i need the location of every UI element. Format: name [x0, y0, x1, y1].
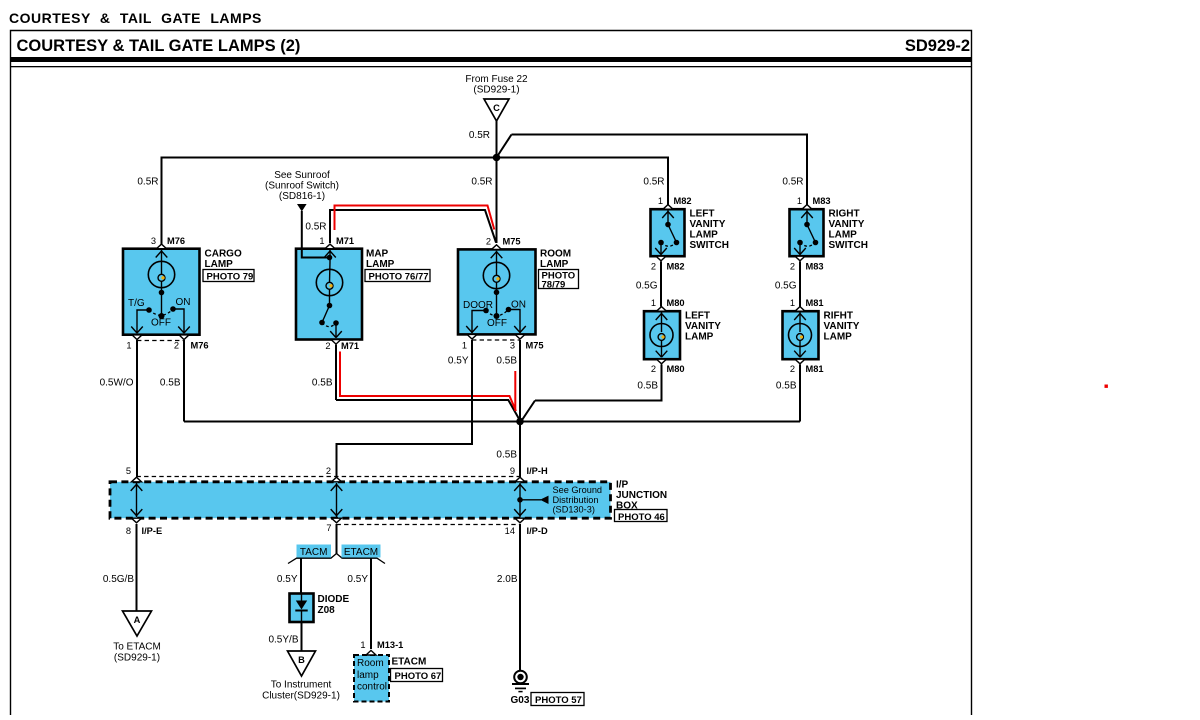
svg-text:LEFT: LEFT: [690, 209, 715, 220]
svg-text:LAMP: LAMP: [829, 230, 858, 241]
svg-text:CARGO: CARGO: [205, 249, 242, 260]
svg-text:PHOTO 67: PHOTO 67: [395, 671, 442, 682]
svg-text:M76: M76: [191, 341, 209, 351]
room lamp M75 box: [458, 249, 536, 334]
wire ETACM branch down (0.5Y): [370, 558, 372, 649]
pin 9 label I/P-H: [510, 466, 548, 476]
svg-text:0.5G: 0.5G: [775, 281, 797, 292]
pin 14 label I/P-D: [505, 526, 548, 536]
svg-text:PHOTO 57: PHOTO 57: [535, 695, 582, 706]
svg-text:0.5R: 0.5R: [305, 222, 326, 233]
component name LEFT VANITY LAMP: [685, 311, 721, 343]
photo ref PHOTO 46: [615, 510, 668, 524]
svg-text:1: 1: [462, 341, 467, 351]
node junction dot top: [493, 154, 501, 162]
svg-text:3: 3: [510, 341, 515, 351]
room lamp switch ON contact: [506, 307, 512, 313]
cargo lamp switch pole dot: [159, 313, 165, 319]
svg-text:5: 5: [126, 466, 131, 476]
component name MAP LAMP: [366, 249, 395, 271]
annotation See Ground Distribution (SD130-3): [553, 485, 603, 515]
pin 1 chevron M13-1: [366, 650, 376, 655]
cargo lamp wire contact ON to pin2: [173, 309, 190, 333]
room lamp switch position labels: [463, 300, 526, 330]
pin 1 chevron M75: [467, 334, 477, 339]
red highlight path upper (map lamp feed): [335, 206, 495, 231]
wire slant up from node to upper rail: [497, 135, 512, 158]
connector triangle A: [123, 611, 152, 636]
pin 7 chevron: [332, 518, 342, 523]
svg-text:0.5Y: 0.5Y: [347, 574, 368, 585]
diagram frame border: [11, 31, 972, 716]
wire from C to node: [496, 121, 498, 158]
I/P internal through-wire pin9-pin14: [514, 483, 526, 517]
map lamp M71 box: [296, 249, 362, 340]
wire upper rail to M83 (0.5R): [512, 135, 808, 206]
svg-text:0.5B: 0.5B: [160, 378, 181, 389]
M83 switch right contact: [813, 240, 819, 246]
pin 2 chevron M71: [331, 340, 341, 345]
svg-text:To Instrument: To Instrument: [271, 680, 332, 691]
svg-text:VANITY: VANITY: [829, 219, 865, 230]
pins 1 3 labels of connector M75: [462, 341, 544, 351]
pin 1 chevron M82: [663, 205, 673, 210]
svg-text:PHOTO 79: PHOTO 79: [207, 272, 254, 283]
svg-text:Cluster(SD929-1): Cluster(SD929-1): [262, 691, 340, 702]
fork shelf left: [288, 558, 331, 563]
svg-text:See Ground: See Ground: [553, 485, 603, 495]
wire M76 pin1 down to I/P pin5 (0.5W/O): [136, 340, 138, 477]
wire sunroof feed down to map lamp: [301, 211, 303, 250]
svg-text:Room: Room: [357, 658, 384, 669]
wire slant node to right rail: [521, 401, 535, 422]
svg-text:0.5W/O: 0.5W/O: [100, 378, 134, 389]
map lamp switch dashed arc: [322, 323, 336, 327]
wire diode down (0.5Y/B): [301, 622, 303, 651]
svg-text:DOOR: DOOR: [463, 300, 493, 311]
svg-text:0.5B: 0.5B: [637, 381, 658, 392]
pin 14 chevron: [515, 518, 525, 523]
cargo lamp internal pin3 arrow: [156, 250, 168, 262]
svg-text:C: C: [493, 103, 500, 113]
cargo lamp switch position labels: [128, 297, 191, 329]
svg-text:M71: M71: [336, 236, 354, 246]
room lamp internal pin2 arrow: [491, 251, 503, 262]
right vanity lamp switch M83 box: [790, 209, 824, 256]
svg-text:7: 7: [326, 523, 331, 533]
wire M71 pin1 to M75 pin2 (0.5R): [330, 210, 496, 243]
wire M83 to M81 (0.5G): [799, 261, 801, 306]
component name CARGO LAMP: [205, 249, 242, 271]
svg-text:Distribution: Distribution: [553, 495, 599, 505]
svg-text:LEFT: LEFT: [685, 311, 710, 322]
svg-text:A: A: [134, 615, 141, 625]
pin 2 label of connector M75: [486, 237, 521, 247]
svg-text:0.5Y/B: 0.5Y/B: [268, 635, 298, 646]
header thick divider: [10, 57, 972, 62]
wire M76 pin2 down to ground bus (0.5B): [183, 340, 185, 422]
red highlight path lower (map lamp ground): [340, 352, 516, 412]
svg-text:2: 2: [651, 262, 656, 272]
svg-text:0.5R: 0.5R: [137, 177, 158, 188]
pin 1 chevron M83: [802, 205, 812, 210]
wire sunroof feed inside map lamp: [302, 248, 330, 258]
svg-text:0.5G/B: 0.5G/B: [103, 574, 134, 585]
cargo lamp switch ON contact: [170, 306, 176, 312]
svg-text:0.5B: 0.5B: [496, 450, 517, 461]
svg-text:2: 2: [325, 341, 330, 351]
svg-text:B: B: [298, 655, 305, 665]
svg-text:(Sunroof Switch): (Sunroof Switch): [265, 181, 339, 192]
svg-text:I/P-H: I/P-H: [527, 466, 548, 476]
svg-text:From Fuse 22: From Fuse 22: [465, 74, 528, 85]
svg-text:M82: M82: [674, 196, 692, 206]
M80 internal pin1 arrow: [656, 313, 668, 333]
I/P internal ground tap dot: [517, 497, 523, 503]
wire M75 pin1 down-left to I/P pin2 (0.5Y): [337, 340, 473, 477]
svg-text:M13-1: M13-1: [377, 640, 403, 650]
svg-text:control: control: [357, 682, 387, 693]
pin 8 chevron: [132, 518, 142, 523]
room lamp bulb-switch junction dot: [494, 290, 500, 296]
M82 switch dashed arc: [661, 243, 677, 247]
svg-text:VANITY: VANITY: [824, 321, 860, 332]
svg-text:1: 1: [360, 640, 365, 650]
M82 switch lever: [668, 225, 677, 243]
svg-text:T/G: T/G: [128, 298, 145, 309]
svg-text:LAMP: LAMP: [824, 332, 853, 343]
svg-text:M81: M81: [806, 364, 824, 374]
svg-text:(SD929-1): (SD929-1): [473, 85, 519, 96]
svg-text:RIFHT: RIFHT: [824, 311, 853, 322]
wire M75 pin3 down to ground node (0.5B): [519, 340, 521, 422]
ground node junction dot: [516, 418, 524, 426]
pin 1 label of connector M71: [319, 236, 354, 246]
ground bus horizontal wire: [184, 421, 800, 423]
M82 internal pin1 arrow: [662, 211, 674, 225]
svg-text:I/P-E: I/P-E: [142, 526, 163, 536]
room lamp switch dashed arc: [486, 310, 509, 316]
map lamp bulb: [316, 262, 342, 306]
room lamp wire contact DOOR to pin1: [466, 311, 486, 334]
wire I/P pin7 down to TACM/ETACM fork: [336, 524, 338, 554]
M80 bulb: [650, 324, 673, 358]
pin 5 chevron: [132, 477, 142, 482]
pin 1 label of connector M80: [651, 298, 685, 308]
svg-text:0.5R: 0.5R: [469, 130, 490, 141]
stray red mark: [1105, 385, 1108, 388]
svg-text:1: 1: [797, 196, 802, 206]
svg-text:JUNCTION: JUNCTION: [616, 490, 667, 501]
M81 internal pin2 arrow: [794, 351, 806, 358]
left vanity lamp switch M82 box: [651, 209, 685, 256]
svg-text:COURTESY & TAIL GATE LAMPS (2): COURTESY & TAIL GATE LAMPS (2): [17, 37, 301, 55]
fork shelf right: [343, 558, 386, 563]
cargo lamp bulb-switch junction dot: [159, 290, 165, 296]
right vanity lamp M81 box: [783, 311, 819, 359]
M81 internal pin1 arrow: [794, 313, 806, 333]
map lamp switch left contact: [319, 320, 325, 326]
wire M82 to M80 (0.5G): [660, 261, 662, 306]
svg-text:ON: ON: [176, 297, 191, 308]
I/P internal through-wire pin2-pin7: [331, 483, 343, 517]
M82 switch right contact: [674, 240, 680, 246]
pin 3 label of connector M76: [151, 236, 185, 246]
pin 9 chevron: [515, 477, 525, 482]
svg-text:M83: M83: [806, 262, 824, 272]
connector triangle C: [484, 99, 509, 121]
M83 switch left contact: [797, 240, 803, 246]
svg-text:0.5B: 0.5B: [496, 356, 517, 367]
map lamp switch pole dot: [327, 303, 333, 309]
wire M81 pin2 down (0.5B): [799, 364, 801, 421]
svg-text:I/P-D: I/P-D: [527, 526, 548, 536]
svg-text:1: 1: [126, 341, 131, 351]
svg-text:TACM: TACM: [300, 547, 328, 558]
svg-text:Z08: Z08: [318, 605, 336, 616]
pin 1 label of connector M81: [790, 298, 824, 308]
svg-text:0.5B: 0.5B: [776, 381, 797, 392]
svg-text:PHOTO 76/77: PHOTO 76/77: [369, 272, 429, 283]
svg-text:(SD130-3): (SD130-3): [553, 505, 595, 515]
pin 2 label of connector M81: [790, 364, 824, 374]
pin 8 label I/P-E: [126, 526, 162, 536]
cargo lamp switch T/G contact: [146, 307, 152, 313]
map lamp switch right contact: [333, 320, 339, 326]
svg-text:0.5Y: 0.5Y: [448, 356, 469, 367]
svg-text:DIODE: DIODE: [318, 594, 350, 605]
pin 2 chevron M83: [795, 256, 805, 261]
pins 1 2 labels of connector M76: [126, 341, 208, 351]
connector I/P-H top dashed link: [137, 476, 521, 478]
connector M75 bottom dashed link: [472, 339, 520, 341]
svg-text:2.0B: 2.0B: [497, 574, 518, 585]
room lamp switch DOOR contact: [483, 308, 489, 314]
svg-text:OFF: OFF: [151, 318, 171, 329]
svg-text:To ETACM: To ETACM: [113, 642, 161, 653]
svg-text:M82: M82: [667, 262, 685, 272]
svg-text:lamp: lamp: [357, 670, 379, 681]
room lamp wire contact ON to pin3: [509, 310, 526, 334]
net tag ETACM: [342, 545, 381, 559]
svg-text:0.5Y: 0.5Y: [277, 574, 298, 585]
pin 1 chevron M71: [325, 244, 335, 249]
svg-text:See Sunroof: See Sunroof: [274, 170, 330, 181]
cargo lamp wire contact T/G to pin1: [131, 310, 149, 333]
svg-text:RIGHT: RIGHT: [829, 209, 860, 220]
wire M80 pin2 down (0.5B): [661, 364, 663, 401]
svg-text:ETACM: ETACM: [392, 657, 427, 668]
svg-text:LAMP: LAMP: [685, 332, 714, 343]
pin 1 chevron M81: [795, 307, 805, 312]
svg-text:(SD816-1): (SD816-1): [279, 191, 325, 202]
room lamp control box (ETACM): [354, 655, 389, 702]
svg-text:VANITY: VANITY: [690, 219, 726, 230]
component name RIFHT VANITY LAMP: [824, 311, 860, 343]
svg-text:I/P: I/P: [616, 480, 629, 491]
header thin divider: [10, 66, 972, 67]
svg-text:1: 1: [790, 298, 795, 308]
M82 wire contact to pin2: [655, 243, 667, 255]
svg-text:SD929-2: SD929-2: [905, 37, 970, 55]
svg-text:8: 8: [126, 526, 131, 536]
svg-text:0.5G: 0.5G: [636, 281, 658, 292]
M82 switch left contact: [658, 240, 664, 246]
I/P junction box: [110, 482, 611, 518]
svg-text:M83: M83: [813, 196, 831, 206]
pin 2 chevron: [332, 477, 342, 482]
svg-text:ROOM: ROOM: [540, 249, 571, 260]
svg-text:LAMP: LAMP: [540, 259, 569, 270]
annotation To Instrument Cluster(SD929-1): [262, 680, 340, 702]
svg-text:0.5R: 0.5R: [471, 177, 492, 188]
wire node down to M75 pin 2 (0.5R): [496, 158, 498, 244]
svg-text:PHOTO 46: PHOTO 46: [618, 512, 665, 523]
wire ground node down to I/P pin9 (0.5B): [519, 422, 521, 478]
svg-text:M76: M76: [167, 236, 185, 246]
connector M76 bottom dashed link: [137, 340, 184, 342]
svg-text:2: 2: [486, 237, 491, 247]
svg-text:SWITCH: SWITCH: [690, 240, 729, 251]
photo ref PHOTO 78/79: [539, 270, 579, 291]
component name RIGHT VANITY LAMP SWITCH: [829, 209, 868, 252]
M83 internal pin1 arrow: [801, 211, 813, 225]
svg-text:LAMP: LAMP: [366, 259, 395, 270]
I/P internal ground tap wire and arrow: [520, 496, 549, 504]
pin 3 chevron M76: [157, 244, 167, 249]
I/P internal through-wire pin5-pin8: [131, 483, 143, 517]
pin 2 label of connector M82: [651, 262, 685, 272]
diode Z08 box: [290, 594, 314, 623]
svg-text:1: 1: [651, 298, 656, 308]
svg-text:0.5R: 0.5R: [643, 177, 664, 188]
pin 3 chevron M75: [515, 334, 525, 339]
photo ref PHOTO 79: [203, 270, 254, 283]
svg-text:COURTESY & TAIL GATE LAMPS: COURTESY & TAIL GATE LAMPS: [9, 10, 262, 26]
pin 1 chevron M80: [657, 307, 667, 312]
cargo lamp bulb: [148, 261, 174, 316]
svg-text:0.5B: 0.5B: [312, 378, 333, 389]
photo ref PHOTO 76/77: [365, 270, 430, 283]
left vanity lamp M80 box: [644, 311, 680, 359]
svg-text:MAP: MAP: [366, 249, 389, 260]
pin 2 chevron M82: [656, 256, 666, 261]
wire I/P pin14 down to ground (2.0B): [519, 524, 521, 671]
wire TACM branch down (0.5Y): [300, 558, 302, 593]
component name LEFT VANITY LAMP SWITCH: [690, 209, 729, 252]
connector triangle B: [288, 651, 316, 676]
svg-text:OFF: OFF: [487, 318, 507, 329]
net tag TACM: [297, 545, 332, 559]
wire I/P pin8 down (0.5G/B): [136, 524, 138, 611]
cargo lamp M76 box: [123, 249, 200, 335]
svg-text:3: 3: [151, 236, 156, 246]
svg-text:SWITCH: SWITCH: [829, 240, 868, 251]
svg-text:2: 2: [790, 364, 795, 374]
M81 bulb: [789, 324, 812, 358]
component name ROOM LAMP: [540, 249, 571, 271]
M82 switch pole dot: [665, 222, 671, 228]
svg-text:M80: M80: [667, 298, 685, 308]
sunroof feed triangle (filled): [297, 204, 307, 212]
svg-text:1: 1: [319, 236, 324, 246]
photo ref PHOTO 67: [391, 669, 443, 683]
svg-text:LAMP: LAMP: [205, 259, 234, 270]
M83 wire contact to pin2: [794, 243, 806, 255]
map lamp switch lever: [322, 306, 330, 323]
svg-text:0.5R: 0.5R: [782, 177, 803, 188]
pin 2 chevron M75: [492, 245, 502, 250]
pin 1 label of connector M82: [658, 196, 692, 206]
wire M71 pin2 down (0.5B): [335, 345, 337, 400]
pins 2 label of connector M71: [325, 341, 359, 351]
M83 switch pole dot: [804, 222, 810, 228]
M83 switch lever: [807, 225, 816, 243]
pin 1 label of connector M83: [797, 196, 831, 206]
wire bus to M76 and M82 (0.5R): [162, 158, 669, 245]
svg-text:M80: M80: [667, 364, 685, 374]
svg-text:1: 1: [658, 196, 663, 206]
svg-text:VANITY: VANITY: [685, 321, 721, 332]
svg-text:2: 2: [174, 341, 179, 351]
svg-text:M81: M81: [806, 298, 824, 308]
svg-text:2: 2: [651, 364, 656, 374]
svg-text:9: 9: [510, 466, 515, 476]
pin 2 label of connector M80: [651, 364, 685, 374]
pin 2 label of connector M83: [790, 262, 824, 272]
junction dot inside map lamp: [327, 255, 333, 261]
right rail wire to M80: [535, 400, 662, 402]
map lamp wire contact to pin2: [330, 323, 342, 338]
svg-text:78/79: 78/79: [542, 280, 566, 291]
svg-text:M71: M71: [341, 341, 359, 351]
annotation Room lamp control: [357, 658, 387, 693]
map lamp internal pin1 arrow: [324, 250, 336, 262]
svg-text:ETACM: ETACM: [344, 547, 378, 558]
component name DIODE Z08: [318, 594, 350, 616]
svg-text:2: 2: [326, 466, 331, 476]
pin 2 chevron M81: [795, 359, 805, 364]
pin 1 label of connector M13-1: [360, 640, 403, 650]
pin 2 chevron M76: [179, 335, 189, 340]
pin 2 chevron M80: [657, 359, 667, 364]
pin 1 chevron M76: [132, 335, 142, 340]
cargo lamp switch dashed arc: [149, 309, 173, 315]
annotation To ETACM (SD929-1): [113, 642, 161, 664]
room lamp bulb: [483, 262, 509, 316]
svg-text:14: 14: [505, 526, 515, 536]
svg-text:(SD929-1): (SD929-1): [114, 653, 160, 664]
room lamp switch pole dot: [494, 313, 500, 319]
svg-text:LAMP: LAMP: [690, 230, 719, 241]
svg-text:G03: G03: [511, 695, 530, 706]
svg-text:M75: M75: [526, 341, 544, 351]
ground G03 symbol: [512, 671, 529, 692]
M80 internal pin2 arrow: [656, 351, 668, 358]
diode symbol: [295, 594, 307, 623]
fork slants: [331, 554, 343, 559]
svg-text:M75: M75: [503, 237, 521, 247]
component name I/P JUNCTION BOX: [616, 480, 667, 512]
wire M71 rail into ground node: [336, 400, 521, 422]
M83 switch dashed arc: [800, 243, 816, 247]
svg-text:2: 2: [790, 262, 795, 272]
connector I/P-D bottom dashed link: [337, 524, 521, 526]
photo ref PHOTO 57: [531, 693, 584, 707]
